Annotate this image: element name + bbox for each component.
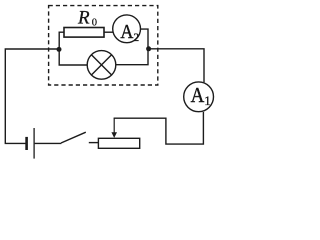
svg-text:A: A bbox=[191, 84, 205, 107]
svg-text:1: 1 bbox=[204, 93, 211, 108]
svg-text:R: R bbox=[77, 8, 90, 29]
svg-text:0: 0 bbox=[92, 18, 97, 29]
svg-text:2: 2 bbox=[133, 32, 139, 44]
svg-text:A: A bbox=[120, 21, 133, 43]
